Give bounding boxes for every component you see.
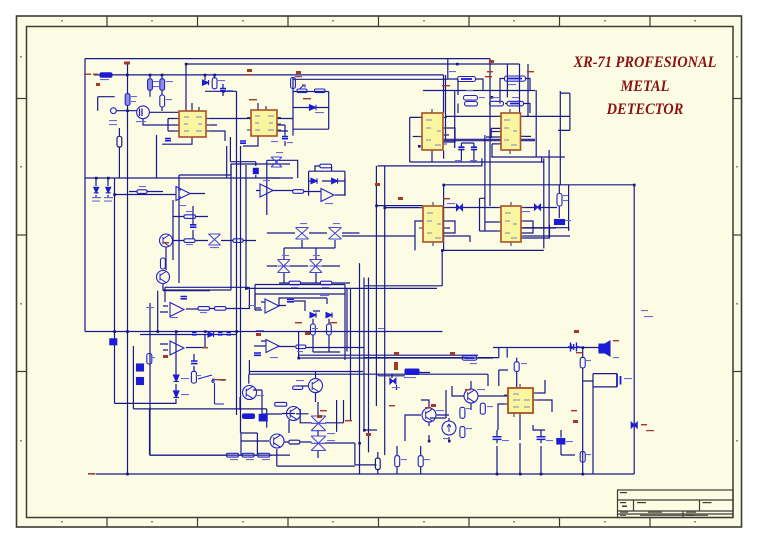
IC U2 (251, 110, 277, 136)
wire row y194.5 (115, 194, 177, 196)
wire mosfet to IC1 (143, 112, 179, 125)
wire x364 vertical (364, 278, 377, 431)
capacitor C10 (254, 353, 261, 355)
diode D10 (173, 375, 179, 382)
wire right channel box top (255, 285, 345, 361)
wire x186 drop (185, 64, 187, 111)
border tick marks left (17, 99, 27, 372)
diode D5 (535, 204, 541, 210)
wire x490 lower (489, 97, 491, 206)
wire opamp2 area (256, 178, 345, 195)
capacitor C13 (filled) (137, 364, 144, 371)
diode D7 (106, 187, 111, 193)
wire diode col x176 (175, 332, 177, 404)
capacitor C5 (282, 137, 288, 139)
wire xsym interconnects (284, 240, 335, 283)
wire x156 drop (156, 135, 158, 178)
wire y455 resistors (150, 454, 290, 456)
wire IC5 left rows (377, 206, 424, 208)
resistor R14 (507, 101, 524, 106)
wire y116 row (446, 115, 571, 117)
diode D16 (326, 313, 332, 318)
resistor R13 (490, 101, 504, 106)
wire col right of IC3 (443, 75, 535, 148)
wire mid bus y331 (85, 331, 442, 333)
resistor R7 (291, 78, 296, 89)
wire bottom minus bus (96, 473, 635, 475)
wire row y91.3 (205, 90, 237, 92)
resistor R33 (258, 453, 270, 457)
resistor R1 input (filled) (100, 73, 112, 77)
capacitor C22 (191, 361, 198, 364)
wire left channel box top (163, 287, 249, 290)
wire mid row y334 (140, 334, 237, 336)
transistor Q3 (157, 271, 170, 284)
wire x384 vertical (384, 166, 386, 455)
transistor Q6 (287, 407, 301, 421)
IC U12 (508, 388, 533, 413)
IC U6 pin text (505, 213, 517, 238)
wire top bus (85, 58, 490, 60)
varicap X8 (311, 436, 326, 451)
IC U2 pin text (255, 116, 274, 130)
wire IC3 left stubs (413, 136, 423, 138)
capacitor C25 (227, 332, 232, 334)
IC U4 (501, 113, 521, 150)
resistor R37 (480, 403, 485, 414)
resistor R23 (289, 281, 301, 285)
IC U3 pin text (426, 120, 441, 145)
wire IC1 left stubs (168, 119, 179, 132)
wire opamp1 out (129, 192, 205, 194)
wire x173 vertical (172, 200, 174, 260)
wire q row y441 (241, 441, 355, 466)
capacitor C15 (filled) (259, 414, 267, 421)
wire cap col (192, 206, 194, 239)
speaker LS1 (599, 341, 610, 356)
wire x359 vertical (359, 263, 361, 474)
resistor R30 (275, 402, 287, 406)
wire IC5 left col (415, 221, 423, 250)
wire IC4 right stub (521, 135, 531, 137)
diode D14 (filled) (208, 332, 214, 337)
wire IC7 bottom caps (497, 430, 541, 443)
wire IC4 left stubs (491, 128, 500, 157)
op-amp U7 (176, 187, 190, 201)
wire opamp4 connections (160, 335, 205, 351)
trimmer RV1 (297, 89, 307, 93)
wire x162 resistor chain (161, 75, 163, 111)
wire x561 cap (561, 430, 575, 455)
resistor R21 (293, 190, 304, 194)
wire IC2 bottom L (230, 137, 255, 178)
IC U1 (179, 111, 206, 137)
IC U12 pin stubs (504, 384, 537, 417)
wire nested row 2 (510, 225, 550, 238)
wire left boundary vertical (84, 59, 86, 332)
wire x535 long drop (507, 64, 528, 116)
op-amp U11 (170, 303, 184, 317)
wire x570 hook (558, 93, 570, 130)
resistor R18 (184, 239, 195, 243)
diode D1 (203, 80, 209, 85)
wire IC6 right hook (521, 221, 533, 233)
wire y357 row right (364, 357, 499, 359)
wire x442 drop (441, 250, 443, 285)
resistor R3 (160, 79, 165, 91)
capacitor C3 (165, 139, 171, 141)
wire IC5-IC6 diode row (443, 207, 557, 209)
diode D2 (310, 105, 317, 110)
resistor R15 (557, 194, 562, 207)
wire diode row (293, 107, 329, 109)
wire xsym row y233 (267, 232, 360, 234)
wire box left edge x443.6 (443, 185, 445, 251)
wire right block top row (423, 90, 535, 92)
IC U2 pin stubs (247, 106, 281, 140)
capacitor C23 (192, 332, 197, 334)
wire q5 chain (452, 386, 508, 410)
current source CS1 (442, 421, 456, 435)
resistor R45 (296, 345, 306, 349)
wire diode box right (328, 92, 330, 130)
wire bus y194 left (96, 178, 108, 198)
wire x354 step (337, 400, 377, 465)
resistor R6 (212, 78, 217, 89)
IC U4 pin stubs (497, 109, 525, 154)
title block tiny text (620, 492, 712, 516)
capacitor C20 (568, 343, 581, 352)
wire IC1 right to IC2 (206, 119, 251, 142)
resistor R11 (465, 102, 478, 106)
IC U1 pin stubs (175, 107, 210, 141)
resistor R46 (filled) (243, 414, 255, 419)
wire resistor col above IC3 (448, 59, 483, 113)
X crystal X2 (271, 157, 282, 167)
varicap X5 (278, 260, 291, 273)
wire diode box left (292, 77, 294, 136)
transistor Q9 (422, 408, 436, 422)
wire y423 x-level (300, 409, 355, 443)
wire transistor net center (240, 386, 316, 433)
wire q4 chain (405, 415, 449, 441)
border tick marks right (733, 99, 742, 372)
wire +9V vertical (127, 64, 129, 474)
op-amp U8 (260, 184, 273, 197)
resistor R27 (147, 354, 152, 365)
wire right columns lower (430, 390, 446, 418)
wire vertical x150 (150, 303, 272, 455)
resistor R35 (460, 407, 465, 418)
resistor R43 (311, 324, 316, 335)
wire nested row 1 (521, 228, 569, 231)
wire IC6 hook verticals (480, 135, 502, 231)
resistor R25 (198, 307, 210, 311)
wire right block row2 (535, 90, 537, 157)
transistor Q4 (243, 386, 257, 400)
wire x519.5 drop (519, 64, 521, 113)
resistor R17 (184, 215, 196, 219)
wire mid box top (179, 164, 290, 175)
IC U1 pin text (184, 117, 202, 131)
capacitor C14 (filled) (137, 378, 144, 385)
wire x568 drop (568, 185, 570, 231)
resistor R2 (148, 79, 153, 91)
wire IC2 top pin (258, 103, 266, 110)
wire photo circle to mosfet (116, 110, 137, 112)
wire x376 vertical (375, 166, 377, 406)
transistor Q1 mosfet (137, 106, 150, 119)
capacitor C8 (filled) (555, 220, 565, 225)
resistor R38 (395, 456, 400, 467)
wire y374 right (487, 374, 489, 386)
wire IC7 box (498, 370, 552, 440)
resistor R39 (418, 456, 423, 467)
wire x223 cap drop (222, 84, 224, 96)
wire x544 drop (543, 158, 545, 248)
wire resistor row y283 (279, 282, 350, 284)
wire diode box top (293, 91, 329, 93)
wire x266 box (267, 160, 298, 215)
resistor R12 (505, 76, 526, 81)
wire box around q3 (241, 433, 257, 455)
analog switch X4 (329, 228, 342, 240)
varicap X7 (311, 416, 326, 431)
resistor R42 (580, 452, 585, 463)
red net labels (84, 60, 654, 475)
wire left long vertical (114, 178, 116, 403)
wire x634 long vertical (633, 185, 635, 474)
wire y215 row (173, 216, 208, 218)
wire mid-right box rails (410, 117, 565, 162)
capacitor C4 (240, 141, 246, 143)
analog switch X3 (296, 228, 309, 240)
diode D13 (631, 421, 637, 430)
wire IC2 bottom pin (243, 136, 258, 146)
resistor R19 (233, 239, 243, 243)
resonator Y1 (filled) (405, 369, 419, 374)
diode D3 (457, 205, 463, 211)
wire resistor x559 (558, 185, 560, 218)
IC U4 pin text (504, 120, 517, 145)
resistor R49 (117, 136, 122, 147)
resistor R48 (375, 458, 380, 470)
wire IC1 bottom pin (162, 137, 192, 144)
wire y374 double row (249, 360, 488, 374)
wire right drop x443.5 (293, 78, 448, 80)
wire mic jack (583, 374, 617, 387)
capacitor C2 photo circle (111, 108, 117, 114)
jack J1 (617, 374, 621, 387)
wire hourglass row y266 (267, 265, 340, 267)
IC U3 (422, 113, 443, 150)
wire row y285.8 (364, 285, 442, 287)
wire IC6 right rows (521, 228, 570, 236)
sheet title text (552, 51, 738, 122)
resistor R31 (227, 453, 239, 457)
capacitor C7 (471, 147, 477, 149)
wire x298 vertical (298, 332, 300, 358)
IC U6 (501, 206, 521, 242)
resistor R5 (125, 94, 130, 106)
wire L bottom of input (98, 97, 115, 111)
wire y345 opamp6 (254, 341, 364, 348)
wire q1 chain (163, 247, 231, 290)
op-amp U10 (266, 340, 279, 353)
capacitor C9 (190, 225, 196, 227)
capacitor C1 (220, 89, 226, 91)
wire mid box left (178, 175, 180, 283)
wire current source (448, 418, 450, 441)
wire cluster2 above IC4 (500, 79, 530, 114)
wire transistor stubs (249, 372, 471, 414)
wire bottom block outline (255, 294, 345, 310)
wire diode box bottom (293, 128, 329, 130)
IC U12 pin text (513, 394, 530, 407)
IC U5 pin stubs (419, 202, 447, 246)
wire x560 drop (542, 91, 561, 185)
resistor R41 (580, 357, 585, 368)
wire IC3 right hook (443, 128, 455, 142)
title block (618, 490, 734, 518)
wire x215 resistor drop (214, 75, 216, 78)
border tick marks bottom (107, 518, 650, 528)
wire x205 drop to diode row (204, 75, 206, 80)
wire xsym to IC5 row (342, 235, 415, 237)
wire y240 row (173, 240, 256, 242)
wire x516 drops (507, 348, 517, 388)
op-amp U9 (321, 189, 334, 202)
wire IC5 right hook (443, 221, 455, 233)
wire hourglass col x318 (317, 402, 319, 458)
switch SW1 (198, 375, 225, 404)
transistor Q7 (270, 434, 284, 448)
resistor R28 (191, 371, 196, 383)
diode D15 (310, 313, 316, 318)
wire trunk pair x236 (227, 91, 241, 433)
wire bottom verticals to bus (397, 443, 541, 474)
wire mid block box2 (246, 165, 437, 288)
varicap X6 (310, 260, 323, 273)
wire input row (94, 75, 444, 113)
resistor R16 (137, 190, 147, 194)
transistor Q8 (464, 389, 478, 403)
wire diode box2 (309, 171, 345, 196)
capacitor C11 (181, 297, 188, 299)
wire left block lower box (115, 346, 267, 455)
resistor R40 (514, 362, 519, 372)
wire IC3 bottom caps (432, 143, 474, 162)
capacitor C17 (493, 437, 502, 440)
wire x150 resistor drop (149, 75, 151, 97)
resistor R34 (462, 356, 477, 360)
wire opamp5 connections (256, 298, 327, 311)
wire bus y178 left (85, 177, 293, 179)
wire IC2 right stubs (277, 119, 293, 132)
wire x549 drop (548, 150, 550, 238)
capacitor C12 (filled) (110, 339, 117, 345)
wire cap below opamp4 (193, 354, 195, 372)
wire R49 stub (118, 128, 120, 178)
IC U3 pin stubs (418, 109, 447, 154)
wire y355 double (299, 355, 493, 358)
wire ceramic resonator row (378, 373, 430, 391)
capacitor C24 (218, 332, 223, 334)
resistor R32 (242, 453, 254, 457)
capacitor C21 (287, 300, 294, 302)
wire speaker net (571, 344, 599, 474)
wire IC1 top pin (192, 103, 199, 111)
diode D11 (173, 391, 179, 398)
resistor R29 (293, 386, 303, 389)
wire right of center verticals (347, 278, 369, 453)
resistor R36 (460, 427, 465, 438)
op-amp U13 (170, 341, 184, 355)
analog switch X1 (209, 234, 221, 245)
diode D8 (311, 178, 317, 183)
resistor R4 (160, 95, 165, 107)
wire cap x285 (284, 125, 286, 146)
wire x490 drop (489, 59, 491, 97)
wire second top bus (186, 63, 520, 65)
IC U5 (423, 206, 443, 242)
resistor R22 (320, 164, 332, 168)
wire resistor above diodes (315, 166, 332, 171)
resistor R10 (464, 96, 478, 101)
op-amp U14 (265, 299, 279, 313)
border tick marks top (107, 16, 650, 27)
wire diode-res col right box (313, 319, 340, 352)
wire row y185 to far right (444, 184, 635, 186)
blue value labels scatter (92, 71, 653, 460)
wire row y165.9 (377, 158, 482, 166)
wire nested row 3 (444, 249, 544, 251)
resistor R20 (161, 258, 166, 269)
transistor Q5 (309, 379, 323, 393)
diode D6 (94, 187, 99, 193)
capacitor C19 (filled) (557, 439, 565, 445)
transistor Q2 (160, 234, 173, 247)
IC U5 pin text (427, 213, 441, 238)
wire opamp3 connections (160, 287, 249, 312)
wire left channel box left (158, 287, 165, 331)
capacitor C26 (filled) (253, 168, 259, 174)
wire IC7 top area (493, 348, 599, 358)
wire IC5 bottom rows (443, 228, 470, 242)
resistor R24 (320, 281, 332, 285)
IC U6 pin stubs (497, 202, 525, 246)
diode D12 (390, 378, 396, 384)
resistor R47 (289, 440, 300, 444)
resistor R44 (327, 324, 332, 335)
resistor R26 (215, 307, 227, 311)
resistor R8 (315, 89, 326, 93)
diode D9 (332, 178, 338, 183)
wire x231 vertical (230, 164, 232, 290)
capacitor C6 (458, 147, 464, 149)
capacitor C18 (537, 437, 546, 440)
resistor R9 (458, 77, 476, 82)
